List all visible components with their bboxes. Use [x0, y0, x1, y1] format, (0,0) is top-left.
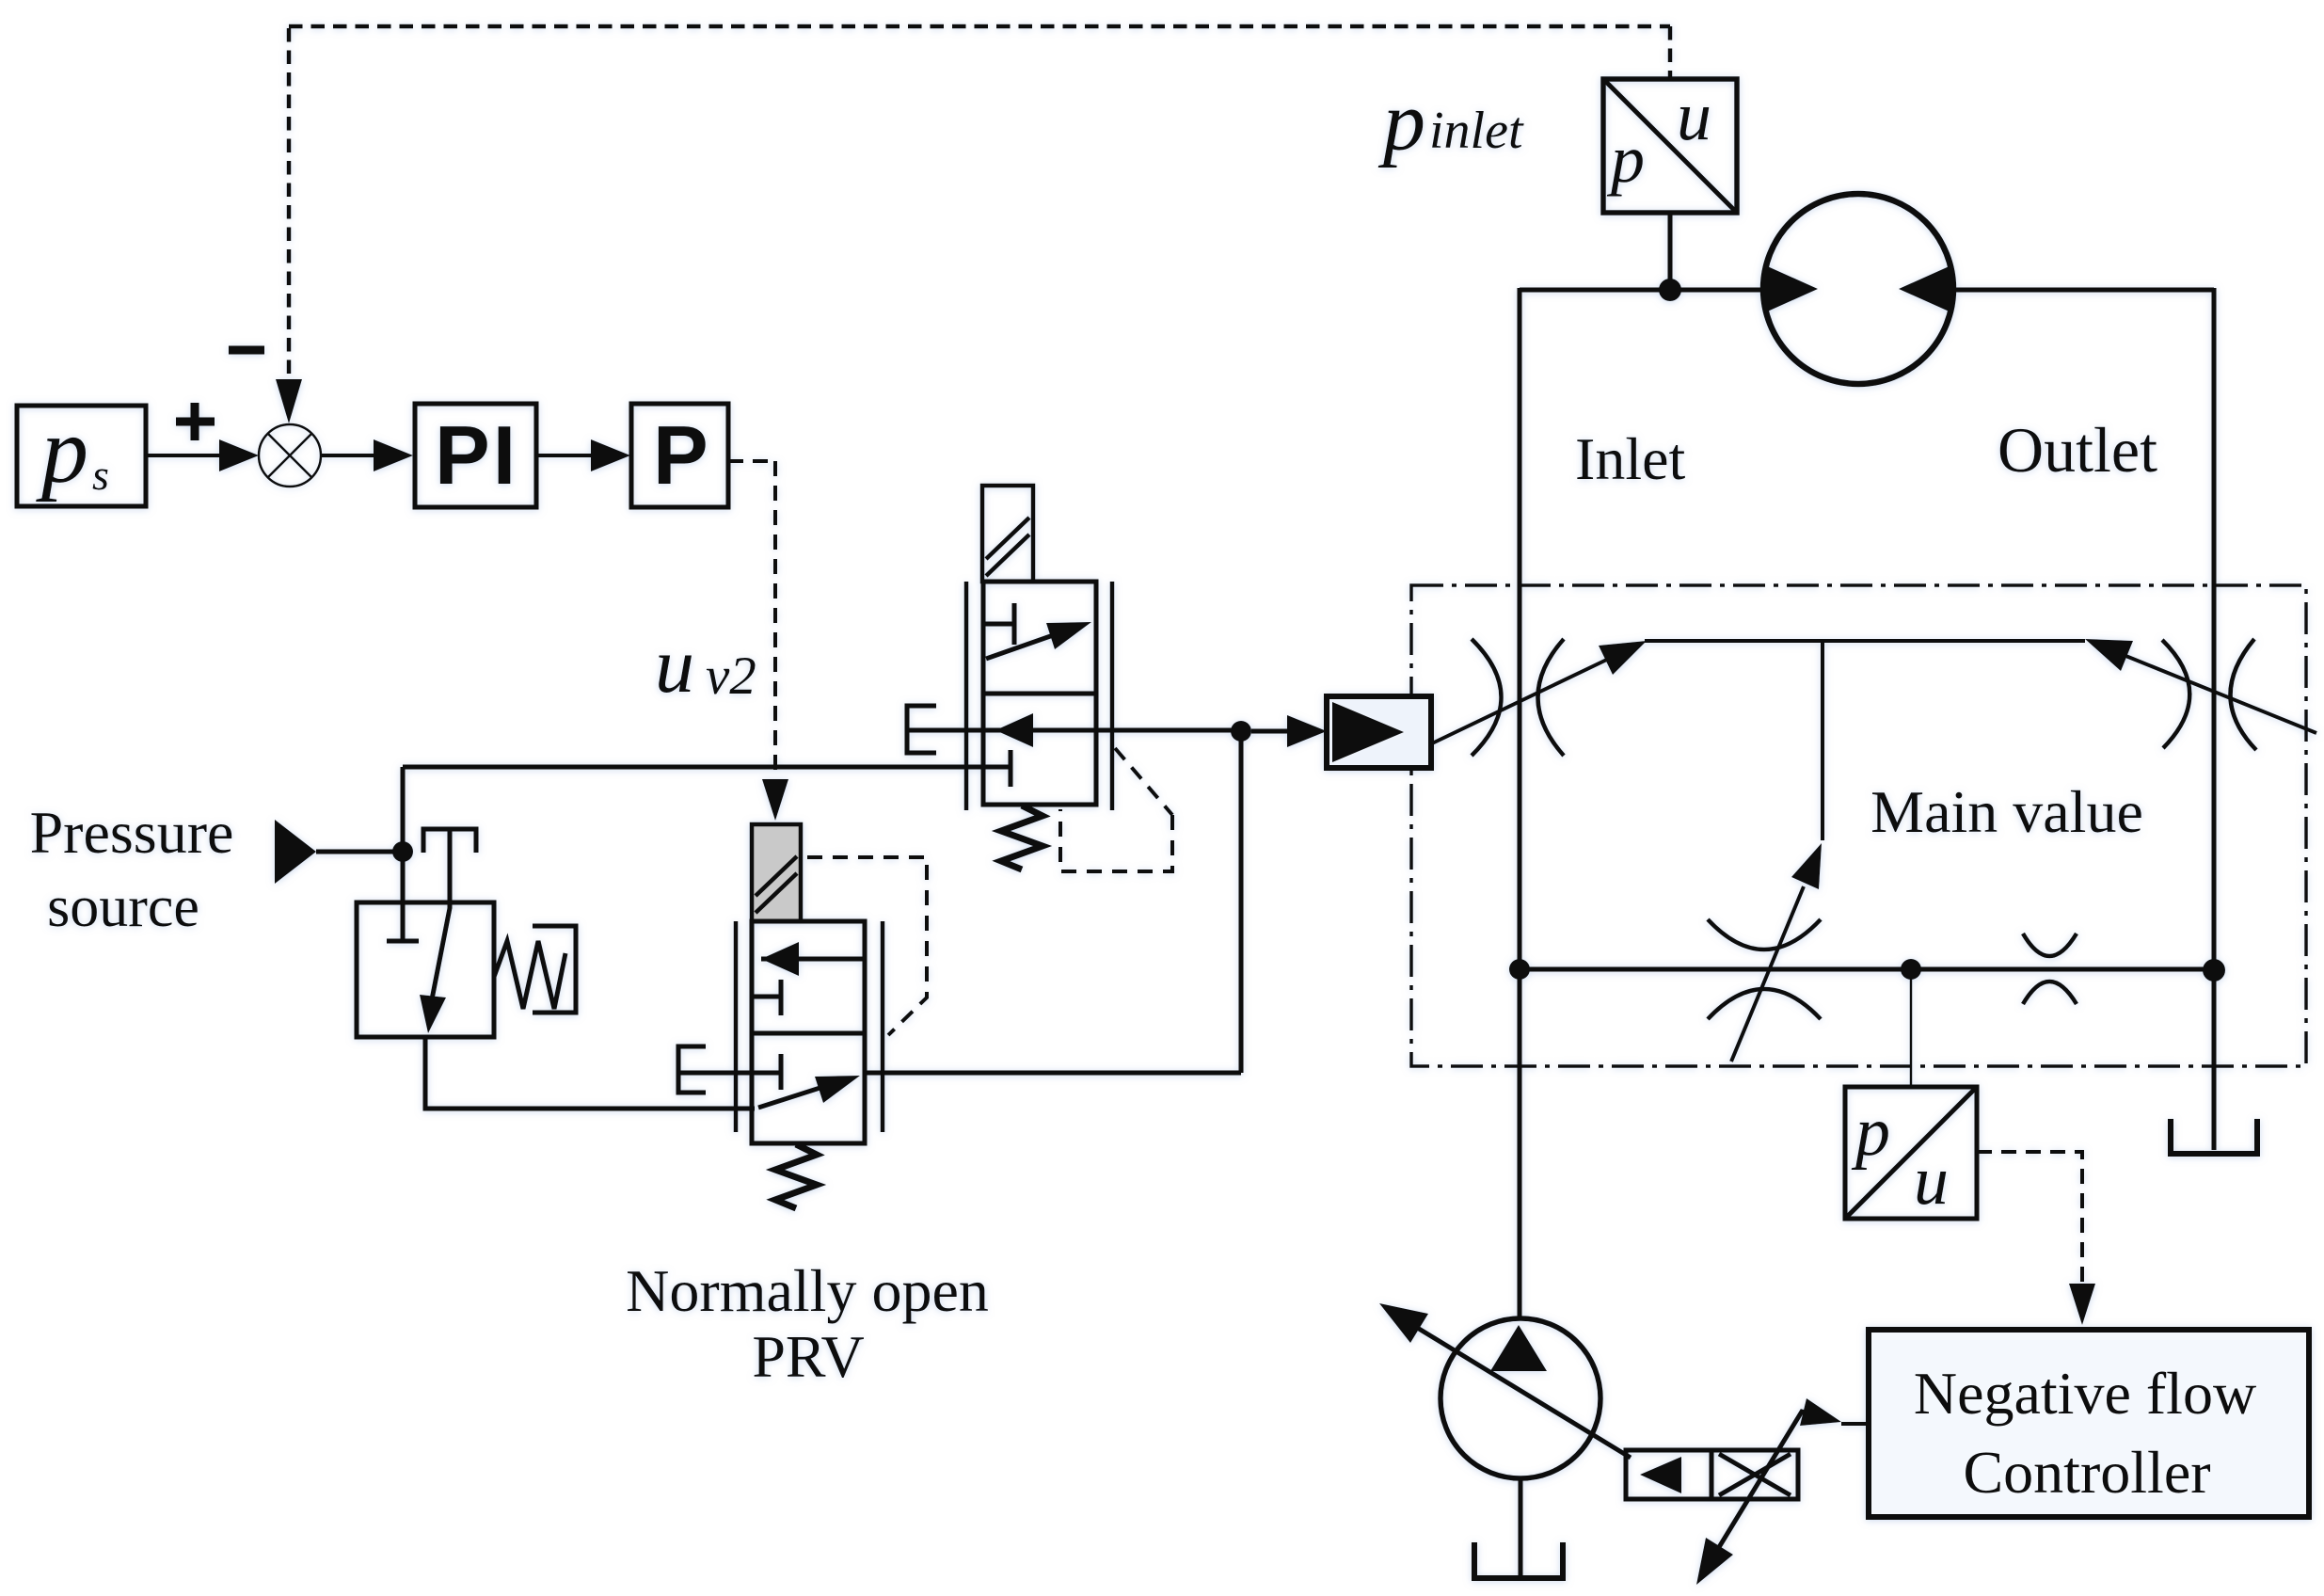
- svg-text:PI: PI: [435, 408, 518, 502]
- svg-text:Negative flow: Negative flow: [1914, 1360, 2256, 1427]
- svg-text:Normally open: Normally open: [626, 1257, 989, 1324]
- svg-text:source: source: [47, 875, 199, 939]
- svg-text:P: P: [653, 408, 708, 502]
- svg-text:Inlet: Inlet: [1575, 425, 1686, 492]
- svg-text:Main value: Main value: [1870, 778, 2143, 845]
- svg-text:u: u: [1914, 1142, 1949, 1220]
- svg-text:p: p: [1377, 75, 1425, 168]
- svg-text:u: u: [1677, 78, 1711, 155]
- svg-text:p: p: [36, 398, 88, 503]
- svg-text:inlet: inlet: [1429, 102, 1524, 160]
- svg-text:p: p: [1606, 121, 1645, 197]
- svg-text:v2: v2: [706, 646, 756, 706]
- svg-text:p: p: [1851, 1093, 1890, 1171]
- svg-text:Pressure: Pressure: [30, 799, 234, 866]
- svg-text:u: u: [655, 622, 694, 710]
- svg-text:s: s: [92, 451, 109, 499]
- svg-text:PRV: PRV: [752, 1323, 864, 1390]
- svg-text:Controller: Controller: [1963, 1439, 2210, 1506]
- svg-text:Outlet: Outlet: [1998, 414, 2157, 486]
